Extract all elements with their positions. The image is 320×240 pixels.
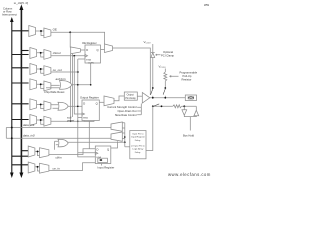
row R2 clkout: taps	[21, 50, 28, 52]
R1 mux 2	[44, 28, 51, 38]
row R1 OE: tap wire	[12, 30, 29, 32]
svg-text:OE Register: OE Register	[82, 41, 97, 45]
svg-text:Logic Array: Logic Array	[132, 148, 144, 151]
R8 wires	[35, 167, 40, 171]
svg-text:Delay: Delay	[135, 140, 141, 142]
vertical from sclr box down	[88, 121, 90, 148]
svg-text:www.elecfans.com: www.elecfans.com	[168, 172, 211, 177]
R4 OR output wire to CLRN vertical	[72, 84, 91, 86]
OE register D-mux	[71, 47, 81, 54]
R4 OR gate	[60, 81, 72, 90]
svg-text:Optional: Optional	[163, 50, 173, 54]
svg-text:Interconnect: Interconnect	[2, 13, 17, 17]
R1 wire mux1-mux2	[36, 31, 44, 36]
pull-up programmable switch	[164, 87, 166, 89]
svg-text:data_in0: data_in0	[23, 134, 35, 138]
main pad wire	[150, 97, 186, 99]
R6 mux2	[44, 116, 51, 126]
svg-text:data_in1: data_in1	[23, 123, 35, 127]
R7 mux2	[40, 148, 49, 158]
svg-text:Bus Hold: Bus Hold	[183, 133, 194, 137]
PCI clamp programmable switch	[152, 87, 154, 89]
OE register CLRN vertical	[90, 63, 92, 85]
wire box to buffer	[137, 95, 142, 97]
bottom OR output wire	[68, 141, 125, 143]
small sclr box	[84, 117, 94, 122]
R4 mux2	[44, 81, 51, 91]
row R4 aclr/prn: tap	[12, 82, 29, 84]
svg-text:clkin: clkin	[56, 156, 62, 160]
R6 mux1	[30, 115, 37, 126]
svg-text:ENA: ENA	[86, 59, 91, 62]
dot on OE wire feeding D-mux	[69, 31, 71, 33]
row R6 sclr/preset: tap (thick)	[12, 119, 29, 121]
bus hold circuit	[183, 105, 185, 107]
R2 wires	[37, 53, 44, 57]
bottom OR inputs	[55, 141, 59, 150]
ce_out trunk dot	[77, 71, 79, 73]
R8 mux1	[28, 162, 35, 173]
svg-text:Input Register: Input Register	[98, 166, 115, 170]
R2 mux1	[30, 48, 37, 59]
svg-text:ww: ww	[204, 3, 210, 7]
svg-text:ce_in: ce_in	[53, 166, 61, 170]
svg-text:Pin-Delay: Pin-Delay	[125, 97, 136, 100]
io_clk vertical bus (thick) with arrows	[19, 5, 23, 179]
R5 output wire to Output Register D	[68, 105, 82, 107]
OE register Q wire into OE mux	[101, 49, 105, 51]
svg-text:Q: Q	[96, 102, 98, 106]
R3 mux1	[30, 64, 37, 75]
svg-text:Resistor: Resistor	[182, 78, 192, 82]
OE Register box	[85, 45, 101, 63]
svg-text:Q: Q	[97, 48, 99, 52]
R6 wires	[37, 120, 44, 124]
clkout trunk dot	[73, 55, 75, 57]
svg-text:ce_out: ce_out	[53, 68, 62, 72]
svg-text:Chip-Wide Reset: Chip-Wide Reset	[44, 90, 65, 94]
R5 mux1	[30, 99, 37, 110]
OE path mux	[105, 44, 113, 53]
svg-text:Slew Rate Control: Slew Rate Control	[115, 113, 137, 117]
svg-text:io_clk[5..0]: io_clk[5..0]	[14, 1, 29, 5]
output mux to Output Pin-Delay box	[114, 96, 124, 101]
R5 OR gate	[58, 102, 68, 110]
R4 wire into OR	[51, 84, 60, 86]
output buffer triangle	[142, 93, 150, 104]
svg-text:or Input Pin to: or Input Pin to	[131, 144, 145, 147]
R7 wires	[35, 151, 40, 155]
svg-text:CLRN: CLRN	[88, 62, 94, 64]
svg-text:D: D	[97, 148, 99, 152]
chip-wide reset wire	[46, 87, 60, 89]
svg-text:Delay: Delay	[135, 152, 141, 154]
Output Register Q wire to output mux	[99, 101, 104, 103]
svg-text:D: D	[86, 48, 88, 52]
Output Pin-Delay box	[124, 92, 137, 100]
OE mux output wire right and down to buffer	[113, 48, 151, 95]
svg-text:ENA: ENA	[83, 117, 88, 120]
dot on D wire	[77, 106, 79, 108]
row R5 data: tap	[12, 103, 29, 105]
output path mux	[104, 96, 114, 106]
svg-text:Input Register: Input Register	[131, 136, 145, 139]
svg-text:Current Strength Control: Current Strength Control	[107, 105, 137, 109]
R6 sclr wire to small box	[51, 120, 84, 122]
svg-text:Programmable: Programmable	[180, 71, 198, 75]
Input Pin to Input Register Delay box	[130, 131, 146, 159]
R7 clkin wire to input register	[49, 149, 95, 155]
Input Register box	[95, 146, 111, 164]
PCI clamp diode	[151, 53, 155, 58]
control bracket wires	[137, 104, 141, 115]
Input Register Q wire	[111, 141, 118, 148]
vertical from OE wire to D-mux	[69, 32, 71, 47]
R5 mux2	[44, 101, 51, 111]
R8 ce_in wire to input register	[49, 163, 95, 171]
trunk filler verticals	[71, 54, 73, 122]
input path mux top	[111, 122, 122, 131]
R7 mux1	[28, 146, 35, 157]
ce_out trunk vertical: up to OE reg ENA, down to out reg ENA	[78, 59, 96, 157]
interconnect vertical bus with arrows	[10, 17, 14, 178]
bottom OR gate	[58, 139, 68, 147]
svg-text:Open-Drain Out: Open-Drain Out	[118, 109, 137, 113]
bus hold branch wire	[153, 105, 197, 107]
R4 wires	[37, 84, 44, 88]
R5 wires	[37, 104, 44, 108]
R1 junction dot	[40, 30, 42, 32]
svg-text:PCI Clamp: PCI Clamp	[161, 53, 174, 57]
row R8 ce_in: tap	[12, 164, 28, 166]
R2 clkout wire to OE register clk	[51, 55, 85, 57]
svg-text:OE: OE	[53, 28, 57, 32]
vertical from pad line down to delay box	[146, 106, 153, 150]
mux feed vertical	[122, 123, 125, 147]
clkout trunk vertical	[74, 56, 82, 114]
R4 mux1	[30, 79, 37, 90]
row R3 ce_out: tap	[12, 67, 29, 69]
R3 wires	[37, 69, 44, 73]
Output Register box	[82, 100, 99, 121]
bus hold branch switch	[152, 105, 154, 107]
svg-text:Pull-Up: Pull-Up	[183, 74, 192, 78]
row R7 clkin: taps	[21, 150, 28, 152]
R3 ce_out wire	[51, 71, 79, 73]
input path mux bottom	[111, 132, 122, 141]
svg-text:clkout: clkout	[53, 51, 61, 55]
R3 mux2	[44, 66, 51, 76]
R1 mux 1	[29, 26, 36, 37]
bus hold series resistor	[173, 105, 182, 108]
R1 OE output wire to OE mux	[51, 32, 105, 44]
R5 wires into OR	[51, 105, 58, 109]
pull-up vertical + resistor	[164, 69, 166, 89]
R8 mux2	[40, 163, 49, 173]
R2 mux2	[44, 50, 51, 60]
svg-text:Q: Q	[107, 148, 109, 152]
svg-text:preset: preset	[66, 118, 74, 122]
I/O pad	[185, 95, 196, 101]
delay box output wire	[125, 146, 130, 148]
PCI clamp vertical	[152, 44, 154, 88]
svg-text:D: D	[83, 102, 85, 106]
svg-text:Input Pin to: Input Pin to	[132, 132, 144, 135]
svg-text:Output Register: Output Register	[80, 95, 99, 99]
